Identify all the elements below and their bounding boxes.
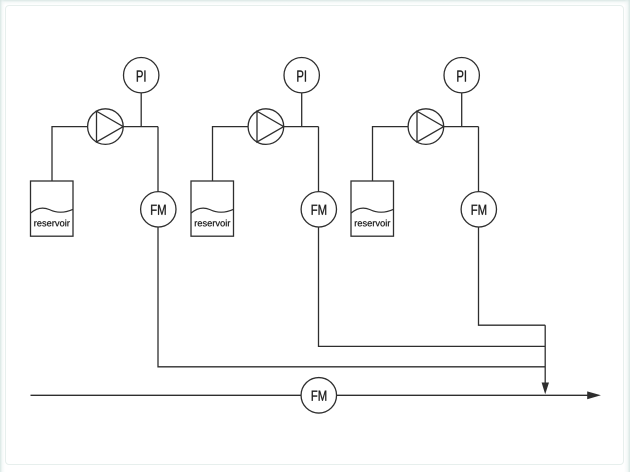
pump P1 [88, 109, 124, 145]
flow meter FM 1 [141, 192, 176, 227]
reservoir 2 [191, 181, 234, 236]
gauge PI 1 [124, 57, 159, 92]
flow meter FM 3 [461, 192, 496, 227]
flow meter FM main [301, 378, 337, 414]
unit 2 PI stem wire [301, 93, 303, 127]
outer edge tint [0, 0, 630, 5]
unit 1 drop wire [158, 127, 545, 367]
reservoir 3 [351, 181, 394, 236]
pump P2 [248, 109, 284, 145]
arrowhead right at main line end [587, 391, 601, 399]
unit 1 PI stem wire [140, 93, 142, 127]
unit 3 drop wire [479, 127, 546, 326]
unit 2 riser wire [213, 127, 319, 181]
flow meter FM 2 [301, 192, 336, 227]
reservoir 1 [31, 181, 74, 236]
pump P3 [408, 109, 444, 145]
unit 2 drop wire [319, 127, 546, 347]
gauge PI 2 [284, 57, 319, 92]
unit 3 riser wire [373, 127, 479, 181]
unit 1 riser wire [52, 127, 158, 181]
collector bus wire [544, 325, 546, 384]
arrowhead down into main line [542, 383, 549, 395]
unit 3 PI stem wire [461, 93, 463, 127]
gauge PI 3 [444, 57, 479, 92]
main output line wire [31, 394, 589, 396]
